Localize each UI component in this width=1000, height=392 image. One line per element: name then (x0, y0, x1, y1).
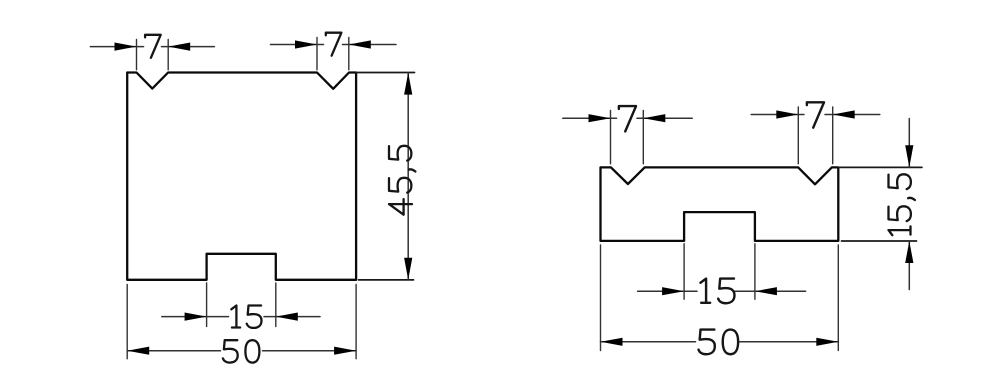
extension line left dim15 right (275, 283, 277, 327)
extension line right dim50 left (600, 245, 602, 351)
dimension line right 50 right segment (740, 341, 839, 343)
arrowhead right 7a left (589, 114, 611, 122)
extension line 45,5 bottom (359, 279, 414, 281)
extension line left dim7b left (316, 38, 318, 70)
text 45,5 rotated (389, 146, 415, 215)
arrowhead 45,5 top (404, 73, 412, 95)
extension line 15,5 top (838, 166, 922, 168)
extension line left dim7a left (136, 40, 138, 70)
arrowhead right 50 right (816, 338, 838, 346)
arrowhead 15,5 top (905, 145, 913, 167)
extension line left dim50 right (355, 285, 357, 359)
text 7 (left dim b) (326, 33, 342, 56)
arrowhead 45,5 bottom (404, 258, 412, 280)
dimension line 15,5 lower tail (908, 241, 910, 290)
arrowhead right 7a right (643, 114, 665, 122)
extension line right dim15 right (754, 244, 756, 299)
right die outline (601, 167, 839, 241)
extension line right dim7a left (610, 111, 612, 164)
extension line right dim7b right (832, 107, 834, 164)
arrowhead 15 left (185, 313, 207, 321)
extension line right dim50 right (837, 245, 839, 351)
extension line right dim7b left (797, 107, 799, 164)
extension line right dim15 left (683, 244, 685, 299)
text 15,5 rotated (889, 174, 915, 235)
arrowhead 15 right (276, 313, 298, 321)
arrowhead right 15 right (755, 287, 777, 295)
extension line right dim7a right (642, 111, 644, 164)
extension line left dim15 left (206, 283, 208, 327)
extension line left dim7a right (167, 40, 169, 70)
text 7 (right dim b) (807, 102, 824, 127)
text 7 (left dim a) (145, 35, 161, 58)
dimension line right 50 left segment (601, 341, 696, 343)
arrowhead right 15 left (662, 287, 684, 295)
arrowhead 50 right (334, 347, 356, 355)
arrowhead right 50 left (601, 338, 623, 346)
arrowhead 7b right (349, 40, 371, 48)
dimension line right 15 right tail (735, 290, 806, 292)
dimension line 15 right tail (264, 316, 320, 318)
dimension line 15,5 upper tail (908, 119, 910, 168)
dimension line right 15 left tail (638, 290, 697, 292)
dimension line right 7b left tail (751, 114, 804, 116)
arrowhead 7a right (168, 43, 190, 51)
dimension line 15 left tail (162, 316, 229, 318)
dimension line 45,5 (407, 73, 409, 280)
arrowhead right 7b left (776, 110, 798, 118)
dimension line 7a left tail (90, 46, 143, 48)
dimension line 7b right tail (343, 44, 397, 46)
arrowhead 50 left (127, 347, 149, 355)
text 50 (right) (699, 330, 739, 355)
extension line left dim50 left (126, 285, 128, 359)
dimension line right 7a left tail (563, 117, 617, 119)
text 50 (left) (223, 340, 260, 362)
dimension line 50 left segment (127, 350, 220, 352)
text 7 (right dim a) (619, 106, 636, 131)
extension line 45,5 top (356, 72, 414, 74)
dimension line 50 right segment (263, 350, 357, 352)
left die outline (127, 73, 356, 280)
text 15 (right) (700, 279, 734, 304)
arrowhead right 7b right (833, 110, 855, 118)
dimension line right 7a right tail (637, 117, 692, 119)
extension line left dim7b right (348, 38, 350, 70)
arrowhead 7b left (295, 40, 317, 48)
text 15 (left) (231, 306, 261, 328)
arrowhead 7a left (115, 43, 137, 51)
dimension line 7b left tail (270, 44, 323, 46)
extension line 15,5 bottom (842, 240, 917, 242)
arrowhead 15,5 bottom (905, 241, 913, 263)
dimension line right 7b right tail (825, 114, 880, 116)
dimension line 7a right tail (162, 46, 215, 48)
